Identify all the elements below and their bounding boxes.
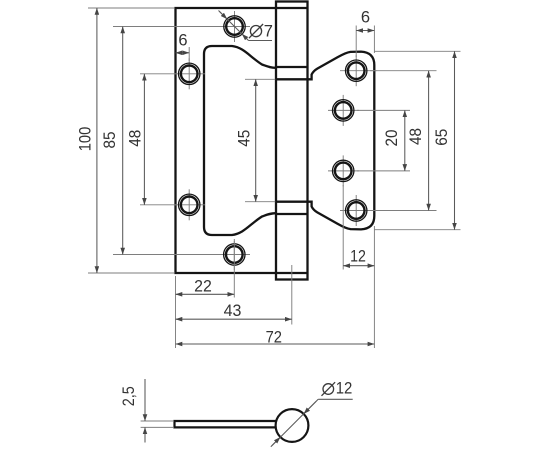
hole L4 <box>219 239 250 270</box>
right wing outline <box>308 52 375 230</box>
svg-text:6: 6 <box>361 9 370 27</box>
svg-text:85: 85 <box>101 132 119 149</box>
dimension 6 right <box>356 30 374 32</box>
dimension 45 <box>255 79 257 201</box>
extension line 45 top <box>245 78 275 80</box>
extension line wing top right <box>374 50 461 52</box>
extension line for 6 right: plate right edge up <box>373 26 375 54</box>
label diameter 12 <box>322 380 353 398</box>
leaf bar side view <box>175 421 277 427</box>
extension line hole R3 centerline down <box>342 185 344 270</box>
dimension 12 <box>343 265 374 267</box>
extension line hole R4 right <box>370 210 437 212</box>
dimension 2,5 <box>144 379 146 443</box>
hole L1 <box>219 11 250 42</box>
extension line hole R3 right <box>357 170 410 172</box>
svg-text:6: 6 <box>178 32 187 50</box>
extension line barrel centerline down <box>291 265 293 325</box>
dimension 20 <box>404 110 406 170</box>
extension line hole L1 left <box>113 26 222 28</box>
barrel cross line at plate top <box>276 7 308 9</box>
svg-text:12: 12 <box>336 380 353 398</box>
dimension 48 left <box>143 74 145 205</box>
label diameter 7 <box>249 23 273 41</box>
extension line hole L4 centerline down <box>233 241 235 298</box>
dimension 100 <box>96 8 98 273</box>
extension line hole L3 left <box>140 204 177 206</box>
dimension 72 <box>176 343 375 345</box>
left leaf outline <box>176 8 277 273</box>
dimension 2,5 extension top <box>141 420 173 422</box>
svg-text:48: 48 <box>407 128 425 145</box>
svg-text:2,5: 2,5 <box>120 386 138 406</box>
svg-text:72: 72 <box>266 328 282 346</box>
dimension 48 right <box>428 71 430 211</box>
extension line hole R1 right <box>370 70 437 72</box>
hole R2 <box>328 95 359 126</box>
extension line 45 bottom <box>245 201 275 203</box>
barrel cross line wing bottom <box>276 201 308 203</box>
extension line plate bottom-left <box>88 272 174 274</box>
extension line plate top-left <box>88 7 174 9</box>
dimension 65 <box>454 51 456 229</box>
extension line hole L2 left <box>140 73 177 75</box>
svg-text:12: 12 <box>350 248 366 266</box>
dimension 22 <box>176 293 235 295</box>
hole R3 <box>328 155 359 186</box>
svg-text:45: 45 <box>235 130 253 147</box>
leader diameter 12 <box>271 399 353 446</box>
extension line plate left edge down <box>175 276 177 348</box>
dimension 85 <box>122 27 124 255</box>
barrel cross line knuckle top <box>276 66 308 68</box>
extension line for 6 left <box>188 47 190 61</box>
extension line hole L4 left <box>113 254 222 256</box>
barrel cross line knuckle bottom <box>276 213 308 215</box>
svg-text:20: 20 <box>383 130 401 147</box>
dimension 2,5 extension bottom <box>141 426 173 428</box>
dimension 6 left <box>176 52 190 54</box>
extension line plate right edge down <box>373 226 375 348</box>
extension line hole R2 right <box>357 109 410 111</box>
barrel cross line wing top <box>276 78 308 80</box>
svg-text:7: 7 <box>264 23 273 41</box>
svg-text:65: 65 <box>433 129 451 146</box>
barrel circle side view <box>276 409 309 442</box>
barrel cross line at plate bottom <box>276 272 308 274</box>
extension line wing bottom right <box>374 229 461 231</box>
svg-text:100: 100 <box>77 127 95 152</box>
hole R4 <box>340 195 377 226</box>
svg-text:43: 43 <box>224 302 242 320</box>
leader diameter 7 <box>219 11 273 41</box>
left leaf cutout <box>204 46 276 235</box>
svg-text:48: 48 <box>126 130 144 147</box>
hole L2 <box>174 58 205 89</box>
hole L3 <box>174 189 205 220</box>
hole R1 <box>340 55 377 86</box>
extension line for 6 right: hole R1 up <box>355 26 357 58</box>
svg-text:22: 22 <box>194 277 212 295</box>
dimension 43 <box>176 318 292 320</box>
barrel (knuckle) <box>276 2 308 280</box>
